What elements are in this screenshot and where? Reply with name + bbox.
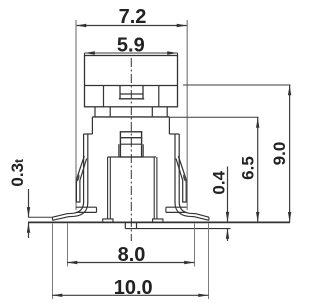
- svg-text:6.5: 6.5: [239, 156, 258, 180]
- boss bottom + 0.4 ref line: [125, 228, 230, 230]
- dimension 9.0 line: [289, 85, 291, 222]
- column foot left: [103, 219, 113, 223]
- cap skirt divider right: [158, 86, 160, 107]
- lead bend + foot right: [179, 202, 209, 217]
- cap outline: [85, 56, 178, 107]
- dimension 6.5 line: [257, 117, 259, 222]
- rear leg left: [76, 156, 86, 202]
- shelf right: [166, 206, 187, 208]
- stem upper box: [119, 86, 121, 99]
- dome shoulder lines: [108, 156, 121, 158]
- step out shoulders: [84, 133, 93, 135]
- housing wall right: [178, 134, 180, 203]
- dimension 5.9 line: [85, 52, 178, 54]
- dimension 8.0 extension lines: [67, 224, 69, 267]
- stem lower box: [120, 132, 141, 157]
- extension line left (7.2): [75, 20, 77, 210]
- svg-text:7.2: 7.2: [119, 6, 147, 28]
- svg-text:9.0: 9.0: [270, 142, 289, 166]
- 6.5 top reference line: [169, 116, 258, 118]
- rear leg right: [176, 156, 186, 202]
- dimension 0.4 lines: [227, 167, 229, 223]
- 9.0 top reference line: [183, 84, 291, 86]
- cap mid line: [84, 85, 178, 87]
- dimension 0.3t lines: [28, 189, 30, 217]
- cap skirt divider left: [103, 86, 105, 107]
- seating plane line: [28, 221, 290, 223]
- center boss: [124, 222, 126, 228]
- centerline dash-dot: [130, 58, 132, 241]
- housing wall left (outer+inner): [83, 134, 85, 203]
- center column right: [153, 157, 155, 219]
- lead bend + foot left: [53, 202, 84, 217]
- 0.3t upper reference line: [28, 216, 53, 218]
- shelf left: [76, 206, 97, 208]
- dimension 10.0 line: [52, 294, 209, 296]
- dimension 8.0 line: [67, 262, 195, 264]
- svg-text:10.0: 10.0: [114, 277, 153, 299]
- center column left: [107, 157, 109, 219]
- svg-text:0.4: 0.4: [209, 170, 228, 194]
- neck sides: [91, 117, 93, 134]
- extension line right (7.2): [186, 20, 188, 210]
- dimension 10.0 extension lines: [52, 224, 54, 300]
- svg-text:0.3t: 0.3t: [8, 159, 27, 187]
- svg-text:8.0: 8.0: [118, 244, 146, 266]
- dimension 7.2 line: [76, 25, 187, 27]
- column foot right: [153, 219, 163, 223]
- band below cap: [94, 107, 96, 117]
